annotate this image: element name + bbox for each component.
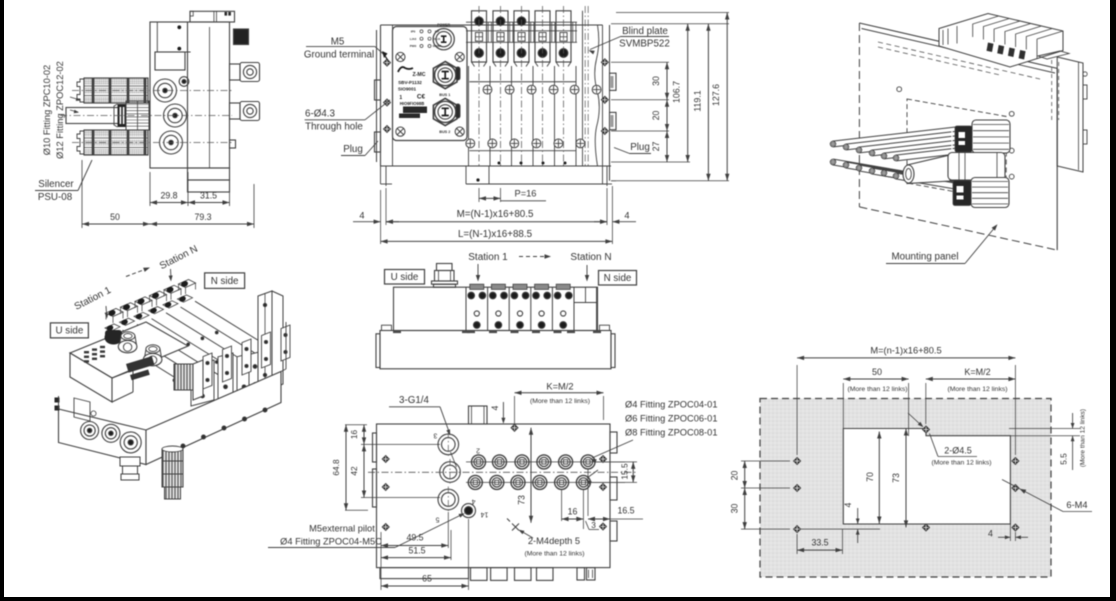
svg-text:5.5: 5.5: [1059, 453, 1069, 465]
dim 5.5 lines: [1009, 428, 1080, 430]
svg-text:14: 14: [481, 511, 489, 518]
iso valve cap 4: [249, 352, 261, 393]
svg-text:Station 1: Station 1: [73, 285, 114, 313]
port row lines: [466, 461, 625, 463]
body bottom step: [188, 168, 230, 180]
iso valve top-face screws: [144, 361, 147, 364]
top station 2: [487, 287, 489, 330]
station 2 tab: [493, 11, 508, 62]
dim 4 (panel bottom-left): [843, 523, 862, 525]
manifold screws row 1: [483, 85, 492, 94]
bottom view right diamonds: [599, 455, 606, 462]
dim 73 (panel): [905, 429, 907, 528]
valve slice dark bits: [987, 43, 994, 53]
left end plate foot: [380, 166, 382, 184]
station N arrow (iso): [170, 269, 173, 279]
svg-text:127.6: 127.6: [711, 84, 721, 106]
svg-text:2: 2: [476, 447, 480, 454]
station 5 centerline: [563, 6, 565, 166]
blind plate centerlines: [584, 6, 586, 166]
dim P=16: [478, 188, 480, 202]
iso base top-left edge: [58, 396, 60, 409]
station 5 connector box: [560, 33, 567, 42]
dim 30 (panel): [741, 528, 790, 530]
port circle 2 (fitting): [164, 104, 187, 127]
station 2 connector box: [497, 33, 504, 42]
iso station 3 tab: [135, 297, 152, 305]
svg-text:6-M4: 6-M4: [1066, 500, 1087, 510]
iso valve cap 3: [237, 353, 251, 396]
lower silencer (textured cylinder): [84, 130, 148, 137]
SI unit logo: [398, 67, 413, 72]
tube connector ridged block: [126, 101, 149, 130]
svg-text:(More than 12 links): (More than 12 links): [847, 386, 907, 393]
iso base long-face dots: [181, 444, 185, 448]
dashed arrow stations: [519, 256, 546, 258]
lower knob connector face (dark): [953, 181, 971, 206]
dim 65: [468, 519, 470, 590]
right dims extension lines: [611, 23, 729, 25]
svg-text:79.3: 79.3: [194, 212, 211, 222]
valve stations rail lines: [466, 21, 577, 23]
svg-text:SIO9001: SIO9001: [398, 87, 417, 92]
svg-text:N side: N side: [604, 273, 632, 284]
station 5 rail posts: [572, 22, 574, 42]
bottom view left diamonds: [382, 455, 389, 462]
body label plate: [155, 52, 185, 70]
iso SI connector 1: [120, 333, 137, 345]
dim 33.5: [796, 534, 798, 554]
iso station 6 coil box: [178, 295, 193, 302]
black border bottom: [0, 597, 1116, 601]
label box N side: [599, 271, 637, 286]
svg-text:119.1: 119.1: [692, 90, 702, 111]
dim 49.5: [380, 532, 382, 590]
left end plate: [376, 30, 378, 162]
fitting ports lower row: [468, 475, 482, 489]
right end plate foot: [602, 166, 604, 184]
station 2 rail posts: [509, 22, 511, 42]
station 3 indicator circle: [517, 49, 526, 58]
lower silencer end cap: [77, 131, 84, 154]
panel cut-out opening (white): [843, 429, 1010, 525]
dim 106.7: [687, 24, 689, 162]
dim M=(N-1)x16+80.5: [385, 188, 387, 225]
iso valve cap 1: [191, 360, 214, 406]
2-M4 screw mark X: [507, 519, 519, 531]
iso station 6 tab: [179, 280, 196, 288]
side connector black block: [234, 29, 249, 45]
svg-text:3: 3: [591, 520, 596, 530]
station 3 tab circle top: [517, 17, 526, 26]
svg-text:PSU-08: PSU-08: [38, 192, 73, 203]
dim 50: [81, 160, 83, 228]
body rivet dots: [177, 25, 181, 29]
svg-text:30: 30: [651, 76, 661, 86]
svg-text:HIO9FIO98B: HIO9FIO98B: [400, 101, 424, 106]
end unit ledge: [1038, 51, 1069, 59]
base plate top edge marks: [393, 331, 401, 334]
svg-text:51.5: 51.5: [408, 546, 425, 556]
dim 42 (left of bottom view): [361, 497, 440, 499]
svg-text:K=M/2: K=M/2: [546, 381, 573, 391]
ground terminal symbol: [382, 51, 388, 58]
centerline row 1: [72, 90, 232, 92]
svg-text:M=(n-1)x16+80.5: M=(n-1)x16+80.5: [870, 345, 941, 355]
svg-text:4: 4: [843, 502, 853, 507]
station 5 tab: [556, 11, 571, 62]
svg-text:73: 73: [891, 473, 901, 483]
svg-text:27: 27: [651, 142, 661, 152]
svg-text:64.8: 64.8: [331, 459, 341, 476]
iso station 1 tab circle: [108, 309, 117, 317]
side connector A (square flange): [230, 64, 241, 80]
svg-text:L=(N-1)x16+88.5: L=(N-1)x16+88.5: [458, 229, 533, 240]
BUS 2 connector: [433, 98, 457, 125]
svg-text:5: 5: [435, 516, 439, 523]
station 2 tab taper: [493, 62, 496, 67]
svg-text:49.5: 49.5: [406, 533, 423, 543]
cutout hole diamonds right column: [1012, 457, 1019, 464]
svg-text:15.5: 15.5: [620, 463, 630, 480]
iso station 1 tab: [106, 309, 123, 317]
iso SI connector 2: [145, 346, 162, 358]
dim 70 (panel): [878, 432, 880, 524]
svg-text:PW0: PW0: [410, 44, 417, 48]
svg-text:Station N: Station N: [570, 252, 611, 263]
dim 20 (right): [666, 100, 668, 131]
dim 4 (top of bottom view): [502, 402, 504, 423]
svg-text:Ø6 Fitting ZPOC06-01: Ø6 Fitting ZPOC06-01: [625, 414, 718, 424]
station 3 connector box: [518, 33, 525, 42]
port circle 1 (fitting): [154, 79, 177, 102]
svg-text:2-M4depth 5: 2-M4depth 5: [528, 536, 580, 546]
station 2 indicator circle: [496, 49, 505, 58]
iso SI unit front face: [70, 353, 112, 402]
station 1 centerline: [478, 6, 480, 166]
station bottom dots: [498, 162, 501, 165]
iso station 4 tab circle: [151, 292, 160, 300]
black border right: [1110, 0, 1116, 601]
iso station 4 coil circle: [149, 307, 157, 315]
svg-text:Plug: Plug: [630, 142, 650, 153]
station 4 tab taper: [535, 62, 538, 67]
POWER connector: [433, 29, 454, 50]
G1/4 port circles: [438, 434, 459, 455]
tube connector dark clamp: [118, 104, 127, 127]
upper tube bundle: [833, 130, 956, 144]
iso station 2 tab circle: [122, 303, 131, 311]
svg-text:Z-MC: Z-MC: [413, 72, 426, 78]
svg-text:U side: U side: [56, 326, 84, 337]
iso station 1 coil box: [105, 324, 120, 331]
left end plate tab lower (plug): [375, 132, 381, 152]
svg-text:16: 16: [568, 507, 578, 517]
left end plate screw diamonds: [383, 59, 390, 66]
top station 3: [508, 287, 510, 330]
dim 16.5: [588, 518, 610, 520]
station 3 rail posts: [530, 22, 532, 42]
station N arrow: [586, 265, 588, 278]
body top box: [190, 11, 235, 22]
body inner panel lines: [156, 22, 158, 52]
dim 127.6: [726, 13, 728, 181]
iso base N-end lower facet: [281, 369, 286, 372]
svg-text:Station 1: Station 1: [468, 252, 508, 263]
iso station 4 coil box: [149, 307, 164, 314]
top view base plate: [380, 331, 611, 369]
iso station 5 tab: [164, 285, 181, 293]
dim 29.8: [149, 172, 151, 206]
iso SI unit right facet: [112, 370, 133, 378]
dim L=(N-1)x16+88.5: [380, 190, 382, 244]
svg-text:C€: C€: [417, 94, 426, 101]
svg-text:0IP: 0IP: [435, 30, 440, 34]
bottom edge connector boxes: [380, 568, 469, 579]
dim 50 (panel): [842, 383, 844, 429]
iso valve cap 2: [218, 353, 233, 401]
end unit right of panel (iso): [1057, 57, 1083, 172]
svg-text:2-Ø4.5: 2-Ø4.5: [944, 446, 972, 456]
svg-text:Ø4 Fitting ZPOC04-M5C: Ø4 Fitting ZPOC04-M5C: [280, 537, 382, 547]
iso pilot white block: [193, 360, 203, 400]
iso N-side end assembly: [258, 291, 272, 393]
station 2 tab circle top: [496, 17, 505, 26]
panel holes (iso): [897, 87, 902, 92]
svg-text:0L/A: 0L/A: [434, 37, 441, 41]
SI unit corner screws: [396, 52, 405, 61]
iso station 1 coil circle: [106, 324, 114, 332]
svg-text:29.8: 29.8: [160, 191, 177, 201]
svg-text:K=M/2: K=M/2: [964, 367, 990, 377]
side connector B (square flange): [230, 103, 241, 119]
svg-text:Ø4 Fitting ZPOC04-01: Ø4 Fitting ZPOC04-01: [625, 400, 718, 410]
svg-text:L/A0: L/A0: [410, 37, 417, 41]
base plate left tab: [376, 334, 380, 368]
dim K=M/2 (bottom view): [514, 396, 516, 425]
svg-text:(More than 12 links): (More than 12 links): [931, 460, 991, 467]
dashed arrow (iso): [126, 269, 146, 277]
manifold base band: [466, 183, 607, 185]
leader fittings to port: [592, 440, 633, 458]
panel top edge double line: [862, 29, 1056, 74]
dim 31.5: [188, 202, 230, 204]
end unit hidden dashes: [1051, 60, 1053, 120]
svg-text:31.5: 31.5: [200, 191, 217, 201]
svg-text:U side: U side: [391, 272, 419, 283]
station 1 indicator circle: [475, 49, 484, 58]
base plate corner notches: [382, 325, 392, 330]
right end plate: [602, 25, 604, 166]
svg-text:4: 4: [988, 529, 993, 539]
dim 15.5: [595, 461, 637, 463]
svg-text:(More than 12 links): (More than 12 links): [1080, 409, 1087, 467]
M5 pilot port: [462, 504, 476, 518]
dim 30 (right): [666, 62, 668, 100]
station 5 tab taper: [556, 62, 559, 67]
dim 79.3: [150, 223, 254, 225]
top view main body: [394, 287, 598, 330]
dim 4 (panel bottom-right): [1009, 524, 1011, 541]
station 1 arrow: [477, 264, 479, 278]
iso base left clamp marks: [55, 398, 60, 403]
svg-text:50: 50: [872, 367, 882, 377]
valve slices left small boxes: [942, 30, 944, 45]
manifold bottom edge: [381, 165, 612, 167]
iso station 2 coil circle: [120, 318, 128, 326]
iso station 3 tab circle: [137, 297, 146, 305]
right end plate tabs: [610, 73, 617, 90]
top connector stub: [437, 264, 453, 271]
hidden manifold edge dashes: [878, 42, 1040, 79]
svg-text:20: 20: [651, 111, 661, 121]
station 1 arrow (iso): [105, 306, 108, 316]
top station 5: [551, 287, 553, 330]
iso station 4 tab: [150, 291, 167, 299]
iso base U-end face: [59, 409, 147, 465]
dim 64.8 (left of bottom view): [345, 509, 368, 511]
iso base U-end fittings (3 rings): [81, 422, 99, 440]
lower tube bundle: [833, 162, 954, 183]
station 4 rail posts: [551, 22, 553, 42]
station 4 centerline: [542, 6, 544, 166]
svg-text:30: 30: [730, 504, 740, 514]
iso station 3 coil box: [134, 312, 149, 319]
svg-text:16: 16: [349, 430, 359, 440]
svg-text:Ø10 Fitting ZPC10-02: Ø10 Fitting ZPC10-02: [42, 65, 52, 155]
svg-text:Plug: Plug: [343, 144, 363, 155]
upper knob connector face (dark): [955, 126, 972, 152]
dim K=M/2 (panel): [925, 383, 927, 424]
manifold top edge: [381, 24, 603, 26]
base plate right tab: [611, 334, 615, 368]
svg-text:16.5: 16.5: [617, 506, 634, 516]
station 1 connector box: [475, 33, 482, 42]
dim 20 (panel): [741, 460, 790, 462]
svg-text:Ø8 Fitting ZPOC08-01: Ø8 Fitting ZPOC08-01: [625, 428, 718, 438]
svg-text:4: 4: [359, 211, 364, 221]
svg-text:BUS 2: BUS 2: [439, 130, 450, 134]
svg-text:M5: M5: [331, 37, 345, 48]
station 1 tab: [472, 11, 487, 62]
svg-text:Blind plate: Blind plate: [622, 26, 668, 37]
svg-text:IP0: IP0: [411, 30, 416, 34]
svg-text:Ø12 Fitting ZPOC12-02: Ø12 Fitting ZPOC12-02: [55, 61, 65, 159]
svg-text:Silencer: Silencer: [38, 179, 74, 190]
svg-text:106.7: 106.7: [672, 81, 682, 103]
station 1 tab taper: [472, 62, 475, 67]
station 3 centerline: [521, 6, 523, 166]
station 3 tab taper: [514, 62, 517, 67]
center large tube: [907, 155, 950, 184]
svg-text:50: 50: [110, 212, 120, 222]
station 5 indicator circle: [559, 49, 568, 58]
panel plate outline (iso): [859, 23, 1057, 68]
iso station 2 tab: [121, 303, 138, 311]
svg-text:N side: N side: [211, 276, 239, 287]
upper silencer (textured cylinder): [84, 78, 148, 85]
upper fitting knob (ribbed): [972, 120, 1010, 153]
svg-text:3-G1/4: 3-G1/4: [399, 395, 430, 406]
middle fitting body: [948, 153, 1005, 181]
svg-text:0PWR: 0PWR: [433, 44, 443, 48]
iso station 5 coil circle: [164, 301, 172, 309]
svg-text:Ground terminal: Ground terminal: [304, 50, 374, 61]
svg-text:M=(N-1)x16+80.5: M=(N-1)x16+80.5: [457, 209, 534, 220]
svg-text:SVMBP522: SVMBP522: [619, 39, 670, 50]
BUS 1 connector: [433, 62, 457, 89]
small tab right lower: [230, 140, 236, 148]
left end plate tab upper: [375, 80, 381, 100]
station 1 tab circle top: [475, 17, 484, 26]
station 4 tab: [535, 11, 550, 62]
svg-text:Station N: Station N: [158, 244, 200, 272]
svg-text:M5external pilot: M5external pilot: [309, 524, 375, 534]
iso SI vent grid: [84, 351, 89, 353]
bottom view centerline horizontal: [368, 471, 636, 473]
iso SI black knob: [105, 330, 122, 339]
iso station 5 tab circle: [166, 286, 175, 294]
station 2 centerline: [500, 6, 502, 166]
manifold screws row 2: [466, 139, 475, 148]
centerline row 2: [60, 115, 232, 117]
svg-text:6-Ø4.3: 6-Ø4.3: [305, 109, 336, 120]
dim 16 (left of bottom view): [345, 424, 367, 426]
cutout dashed rectangle (iso): [907, 99, 1007, 201]
bottom view left tabs: [373, 433, 377, 462]
manifold body block (side view): [150, 22, 230, 168]
middle supply tube: [66, 108, 120, 124]
svg-text:33.5: 33.5: [811, 537, 828, 547]
svg-text:(More than 12 links): (More than 12 links): [530, 398, 590, 405]
svg-text:4: 4: [490, 405, 500, 410]
station 4 indicator circle: [538, 49, 547, 58]
svg-text:3: 3: [433, 432, 437, 439]
svg-text:BUS 1: BUS 1: [439, 93, 450, 97]
iso station 6 coil circle: [178, 295, 186, 303]
iso pilot hatched block: [174, 364, 193, 390]
iso silencer hanging (ribbed): [162, 449, 183, 487]
svg-text:Mounting panel: Mounting panel: [892, 252, 959, 263]
svg-text:4: 4: [471, 498, 475, 505]
end unit side tabs: [1083, 85, 1087, 99]
iso SI unit top face: [70, 322, 188, 378]
label box U side: [385, 270, 425, 285]
fitting ports upper row: [472, 455, 486, 469]
svg-text:(More than 12 links): (More than 12 links): [524, 551, 584, 558]
cutout hole diamond top (Ø4.5): [922, 426, 929, 433]
station 3 tab: [514, 11, 529, 62]
right end plate screw diamonds: [601, 59, 608, 66]
svg-text:73: 73: [517, 495, 527, 505]
station body separation lines: [468, 66, 470, 166]
dim 119.1: [707, 24, 709, 181]
leader to tube fittings: [70, 97, 80, 100]
iso valve end caps row: [203, 353, 212, 389]
iso station 3 coil circle: [135, 313, 143, 321]
top center screw diamond: [511, 424, 518, 431]
lower fitting knob (ribbed): [971, 178, 1009, 208]
svg-text:70: 70: [865, 472, 875, 482]
dim 16 (bottom view): [561, 489, 563, 521]
blind plate strip: [582, 11, 584, 166]
screw circle small: [179, 77, 189, 87]
cutout hole diamond bottom (Ø4.5): [922, 524, 929, 531]
iso station 2 coil box: [120, 318, 135, 325]
bottom view right tabs: [610, 432, 617, 453]
iso station 6 tab circle: [180, 280, 189, 288]
dim M=(n-1)x16+80.5 (panel): [796, 365, 798, 455]
